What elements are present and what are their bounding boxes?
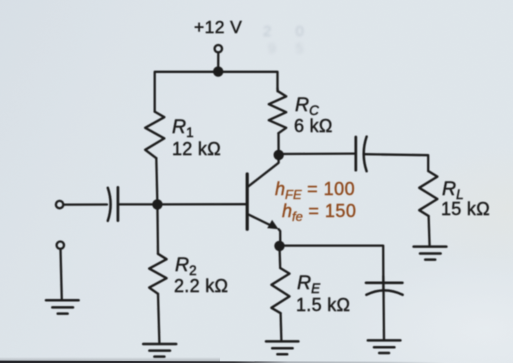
resistor R2 <box>149 254 166 294</box>
transistor Q1 base bar <box>246 174 249 229</box>
capacitor CE straight plate <box>366 281 402 284</box>
transistor Q1 emitter arrow <box>267 220 278 229</box>
ground input <box>46 300 79 313</box>
resistor RC <box>269 91 286 133</box>
resistor RL <box>419 171 437 216</box>
capacitor Cout straight plate <box>354 137 357 170</box>
wire base node to transistor base <box>157 203 246 205</box>
wire R1 to base node <box>156 158 157 204</box>
wire RC branch top <box>276 88 279 91</box>
node base junction <box>152 199 162 209</box>
lower input terminal <box>57 242 64 249</box>
transistor Q1 emitter lead <box>248 214 271 225</box>
ground CE <box>368 340 401 353</box>
wire RC to collector node <box>277 133 279 155</box>
wire supply to rail <box>217 52 219 71</box>
svg-text:+12 V: +12 V <box>194 17 242 37</box>
wire emitter node to bypass cap <box>280 246 384 292</box>
wire emitter node to RE <box>278 246 281 268</box>
wire input to capacitor <box>63 203 107 205</box>
wire collector node to Cout <box>279 152 355 155</box>
svg-text:15 kΩ: 15 kΩ <box>441 199 490 219</box>
resistor R1 <box>145 112 164 159</box>
wire top rail <box>155 72 278 112</box>
wire RL to ground <box>429 216 430 246</box>
capacitor Cin straight plate <box>117 187 120 220</box>
wire Cout to RL <box>365 154 428 171</box>
ground RE <box>266 341 298 354</box>
transistor Q1 collector lead <box>248 151 278 187</box>
input terminal <box>56 201 63 208</box>
ground RL <box>414 247 447 260</box>
wire emitter to node <box>279 229 281 246</box>
svg-text:6 kΩ: 6 kΩ <box>294 116 333 136</box>
resistor RE <box>271 268 289 313</box>
wire capacitor to base node <box>118 203 157 205</box>
node supply junction <box>213 66 223 76</box>
wire terminal to ground <box>61 249 62 300</box>
wire RE to ground <box>279 313 282 341</box>
capacitor Cout curved plate <box>364 137 367 172</box>
svg-text:2.2 kΩ: 2.2 kΩ <box>174 276 228 296</box>
svg-text:12 kΩ: 12 kΩ <box>172 139 221 159</box>
svg-text:1.5 kΩ: 1.5 kΩ <box>296 295 350 315</box>
supply terminal <box>215 45 222 52</box>
ground R2 <box>143 344 176 357</box>
wire R2 branch <box>156 204 159 253</box>
wire CE to ground <box>382 276 385 340</box>
wire R2 to ground <box>158 294 159 344</box>
capacitor CE curved plate <box>366 290 402 294</box>
capacitor Cin curved plate <box>108 188 111 221</box>
node collector junction <box>274 150 284 160</box>
node emitter junction <box>274 241 284 251</box>
